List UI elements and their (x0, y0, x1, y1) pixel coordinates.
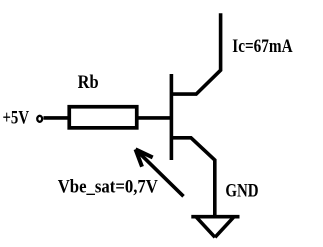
svg-text:Ic=67mA: Ic=67mA (232, 36, 293, 57)
svg-text:GND: GND (225, 181, 258, 202)
svg-text:Rb: Rb (78, 72, 99, 93)
svg-text:+5V: +5V (3, 108, 30, 129)
svg-text:Vbe_sat=0,7V: Vbe_sat=0,7V (58, 176, 158, 197)
